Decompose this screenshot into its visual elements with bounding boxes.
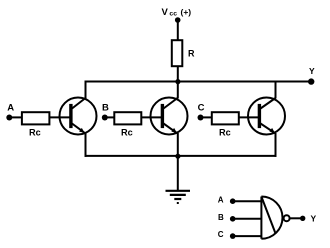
svg-text:C: C	[218, 230, 224, 239]
wire Q2 collector to top bus	[177, 82, 179, 99]
wire C to Rc	[201, 116, 212, 118]
wire B to Rc	[105, 116, 114, 118]
node gate input A	[230, 198, 236, 204]
wire Q3 emitter to bottom bus	[275, 133, 277, 157]
wire gate input B	[233, 218, 262, 220]
gate U1 output inversion bubble	[284, 215, 290, 221]
svg-text:B: B	[102, 102, 109, 113]
svg-text:Rc: Rc	[29, 128, 41, 138]
wire Q1 collector to top bus	[85, 81, 87, 99]
node A input terminal	[6, 115, 12, 121]
wire Rc to Q2 base	[141, 116, 162, 118]
transistor Q3	[248, 98, 285, 135]
svg-text:Rc: Rc	[219, 128, 231, 138]
node Vcc terminal	[175, 17, 181, 23]
svg-text:A: A	[7, 102, 14, 113]
wire bottom bus	[85, 155, 277, 157]
wire Rc to Q3 base	[239, 116, 260, 118]
node C input terminal	[198, 115, 204, 121]
resistor Rc (input C)	[212, 112, 239, 124]
svg-text:R: R	[188, 49, 195, 59]
transistor Q2	[151, 98, 188, 135]
wire Q1 emitter to bottom bus	[85, 133, 87, 157]
resistor Rc (input B)	[114, 112, 141, 124]
wire R to top bus	[177, 67, 179, 82]
wire gate output	[290, 217, 303, 219]
svg-text:Y: Y	[311, 214, 317, 224]
junction top bus / R / Q2 collector	[175, 79, 180, 84]
ground	[166, 156, 191, 203]
node B input terminal	[102, 115, 108, 121]
node gate input C	[230, 233, 236, 239]
wire gate input C	[233, 235, 262, 237]
svg-text:Y: Y	[309, 66, 315, 76]
wire Rc to Q1 base	[49, 116, 71, 118]
svg-text:V: V	[162, 7, 169, 18]
wire top bus	[86, 81, 312, 83]
wire Q3 collector to top bus	[275, 81, 277, 99]
node gate input B	[230, 216, 236, 222]
wire Vcc to R	[177, 20, 179, 40]
svg-text:Rc: Rc	[121, 128, 133, 138]
resistor Rc (input A)	[22, 112, 50, 124]
svg-text:(+): (+)	[181, 7, 192, 17]
wire gate input A	[233, 200, 262, 202]
wire A to Rc	[9, 116, 21, 118]
svg-text:C: C	[198, 102, 205, 113]
svg-text:cc: cc	[169, 10, 177, 17]
wire Q2 emitter to bottom bus	[177, 133, 179, 156]
gate U1 body (D-shape)	[261, 197, 282, 239]
svg-text:B: B	[218, 213, 224, 222]
transistor Q1	[60, 98, 97, 135]
node Y output terminal	[308, 78, 314, 84]
Vcc (+) label	[162, 7, 192, 18]
node Y (gate output)	[300, 216, 305, 221]
gate U1 internal diagonal	[261, 197, 275, 234]
resistor R	[172, 40, 183, 66]
svg-text:A: A	[218, 195, 224, 204]
junction bottom bus / ground	[175, 154, 180, 159]
